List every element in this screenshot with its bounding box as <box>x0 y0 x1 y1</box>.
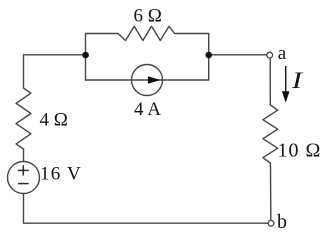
svg-text:10 Ω: 10 Ω <box>278 140 322 162</box>
wire bottom rail <box>24 194 268 224</box>
svg-text:b: b <box>277 211 287 233</box>
svg-text:I: I <box>291 67 303 93</box>
resistor 6 ohm zigzag <box>118 26 175 40</box>
wire loop left vertical <box>85 34 87 81</box>
voltage source minus sign <box>18 183 29 185</box>
resistor 10 ohm zigzag <box>263 105 278 168</box>
wire loop top-right segment <box>175 34 209 81</box>
current arrow I head <box>282 92 289 103</box>
wire current-source branch <box>86 79 209 81</box>
junction dot left <box>82 52 89 59</box>
svg-text:a: a <box>278 43 287 64</box>
junction dot right <box>205 52 212 59</box>
wire terminal a down to resistor <box>269 59 271 105</box>
voltage source 16V circle <box>8 162 40 194</box>
svg-text:16 V: 16 V <box>40 164 82 185</box>
terminal a open circle <box>267 52 273 58</box>
current arrow I shaft <box>285 66 287 93</box>
voltage source plus sign <box>18 165 29 175</box>
current source arrowhead <box>148 77 159 84</box>
current source 4A circle <box>132 65 163 96</box>
wire resistor to terminal b <box>270 168 272 220</box>
wire top-left connector <box>24 55 86 88</box>
resistor 4 ohm zigzag <box>16 88 31 149</box>
svg-text:6 Ω: 6 Ω <box>134 5 162 26</box>
svg-text:4 A: 4 A <box>134 99 161 120</box>
wire junction to terminal a <box>209 54 267 56</box>
svg-text:4 Ω: 4 Ω <box>40 110 68 131</box>
wire loop top-left segment <box>86 33 119 35</box>
terminal b open circle <box>268 220 274 226</box>
wire 4 ohm to 16V source <box>23 149 25 162</box>
